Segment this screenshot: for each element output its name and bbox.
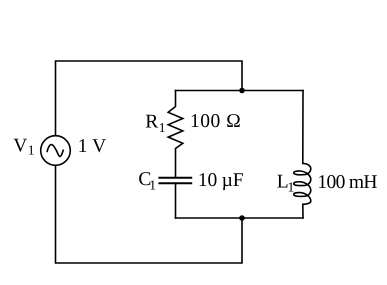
svg-text:10 µF: 10 µF	[198, 170, 244, 191]
svg-text:V: V	[13, 136, 27, 157]
svg-text:1: 1	[28, 143, 35, 158]
svg-text:100 Ω: 100 Ω	[190, 111, 241, 132]
svg-text:100 mH: 100 mH	[317, 172, 377, 193]
svg-text:1: 1	[159, 120, 166, 135]
svg-text:1: 1	[149, 177, 156, 192]
svg-text:R: R	[145, 112, 158, 133]
svg-text:1: 1	[288, 179, 295, 194]
svg-text:1 V: 1 V	[78, 136, 106, 157]
